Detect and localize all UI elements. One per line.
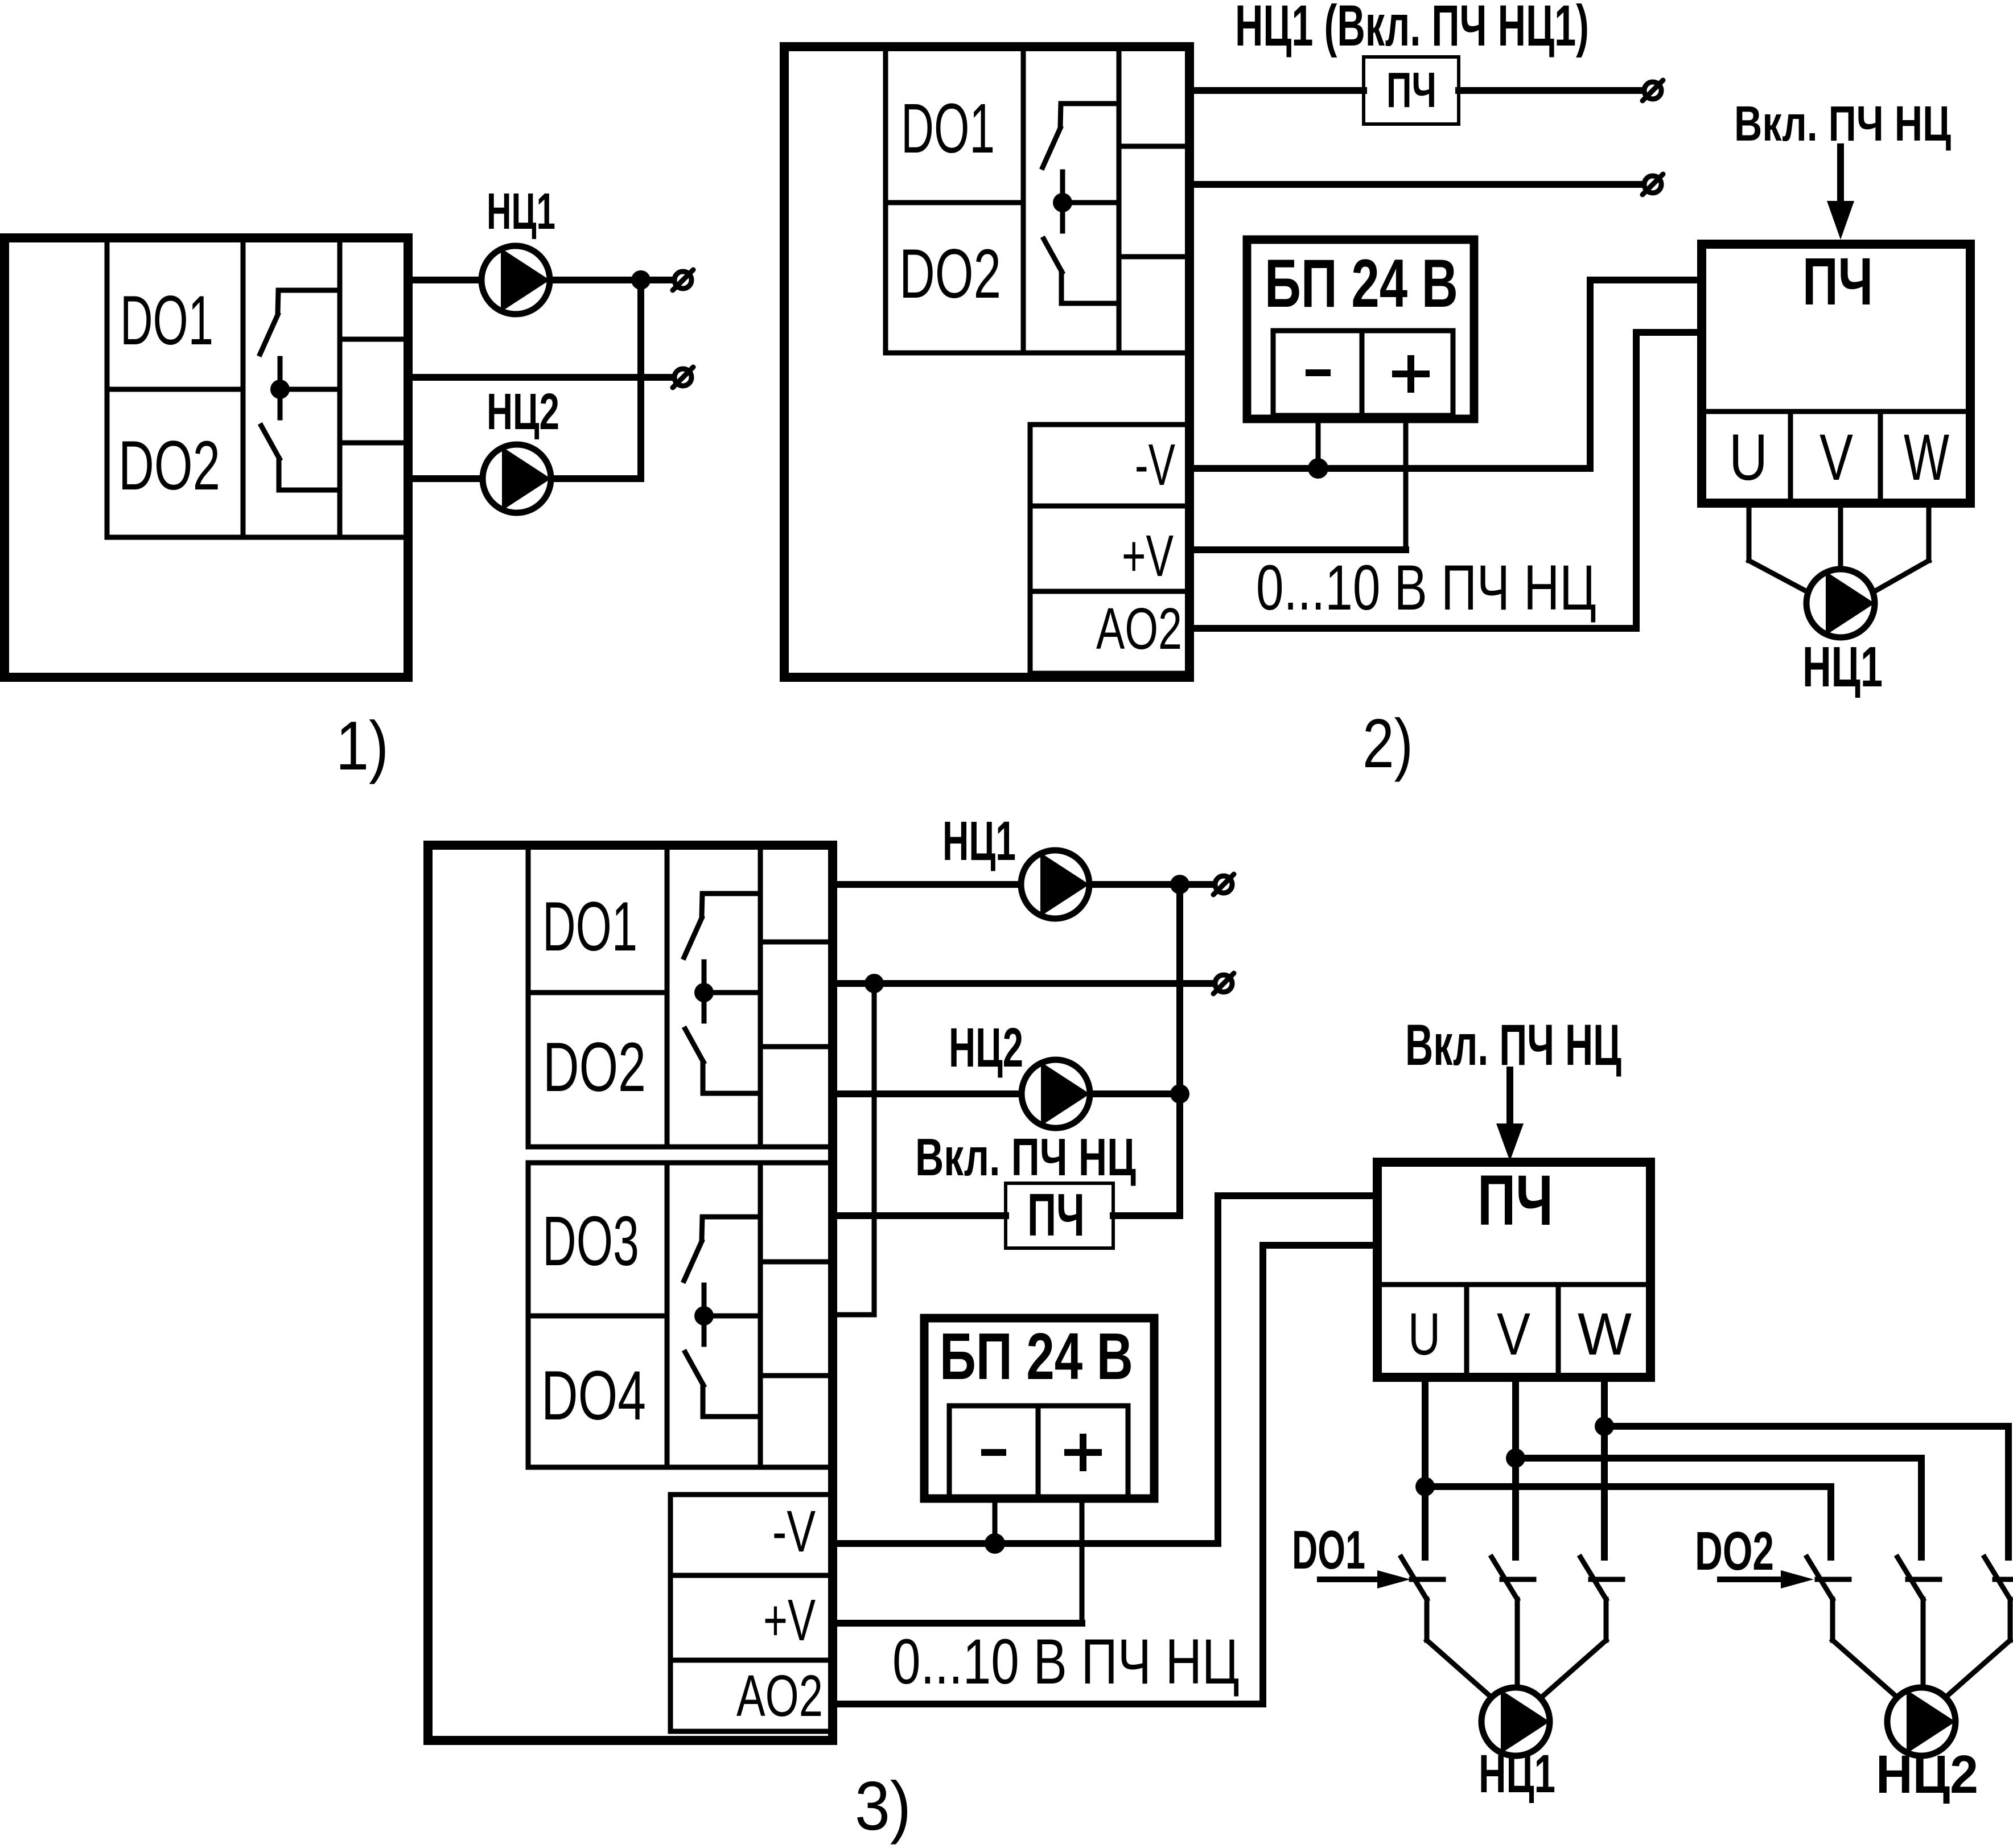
junction node -V / БП minus (diagram 3): [985, 1533, 1005, 1554]
wire DO2 output to pump НЦ2 (diagram 3): [833, 1090, 1021, 1097]
БП output terminal cells (diagram 3): [949, 1406, 1128, 1499]
pump НЦ1 (diagram 2): [1806, 569, 1875, 637]
wire DO4 output to ПЧ run-contact (diagram 3): [833, 1212, 1006, 1219]
svg-text:ПЧ: ПЧ: [1802, 244, 1873, 319]
U V W terminal row (diagram 2): [1702, 411, 1970, 503]
inner partition lines group DO1/DO2 (diagram 3): [528, 845, 833, 1147]
terminal N (diagram 3) (screw symbol): [1213, 973, 1234, 994]
wire common to terminal N (diagram 2): [1189, 181, 1641, 188]
pump НЦ1 (diagram 3 top): [1021, 850, 1089, 919]
svg-text:+V: +V: [1122, 522, 1174, 588]
wire БП minus to -V node: [1316, 419, 1321, 468]
inner partition lines group DO3/DO4 (diagram 3): [528, 1163, 833, 1467]
arrow DO1: [1320, 1570, 1410, 1588]
wire DO2 output to pump НЦ2: [408, 475, 482, 482]
terminal N (diagram 1) (screw symbol): [673, 367, 693, 388]
svg-text:DO2: DO2: [899, 234, 1001, 312]
contactor pole DO1-V: [1492, 1557, 1534, 1686]
svg-text:DO2: DO2: [1695, 1520, 1774, 1582]
arrow DO2: [1720, 1570, 1814, 1588]
svg-text:DO1: DO1: [120, 281, 213, 359]
wire common N (diagram 3): [833, 980, 1212, 987]
junction node N to DO3 common: [865, 974, 884, 993]
svg-text:+V: +V: [763, 1587, 816, 1653]
U V W terminal row (diagram 3): [1377, 1285, 1650, 1377]
wire AO2 to ПЧ analog input (diagram 3): [833, 1245, 1377, 1704]
lower terminal block -V/+V/AO2 (diagram 2): [1030, 425, 1189, 673]
power supply БП 24 В (diagram 2): [1247, 240, 1474, 419]
junction node U: [1415, 1477, 1435, 1496]
svg-text:НЦ1 (Вкл. ПЧ НЦ1): НЦ1 (Вкл. ПЧ НЦ1): [1235, 0, 1589, 58]
contactor pole DO2-U: [1807, 1557, 1896, 1696]
wire БП plus down to +V (diagram 3): [1080, 1499, 1085, 1623]
svg-text:НЦ1: НЦ1: [1479, 1744, 1555, 1804]
wire V to pump: [1838, 503, 1843, 567]
svg-text:НЦ2: НЦ2: [1876, 1744, 1978, 1805]
contactor pole DO1-W: [1543, 1557, 1623, 1696]
relay changeover contact K1 (diagram 3): [684, 894, 760, 1093]
wire N drop to DO3 common: [833, 983, 874, 1315]
controller box (diagram 2): [784, 47, 1189, 677]
controller box (diagram 3): [428, 845, 833, 1740]
svg-text:DO2: DO2: [543, 1027, 646, 1106]
svg-text:ПЧ: ПЧ: [1386, 63, 1436, 118]
frequency converter ПЧ (diagram 2): [1702, 244, 1970, 503]
БП output terminal cells: [1273, 331, 1453, 415]
wire +V to БП plus: [1189, 546, 1406, 553]
svg-text:БП 24 В: БП 24 В: [940, 1319, 1133, 1393]
svg-text:3): 3): [855, 1767, 911, 1845]
wire БП minus to -V node (diagram 3): [993, 1499, 998, 1544]
pump НЦ2 (diagram 1): [483, 444, 551, 513]
relay changeover contact K2 (diagram 3): [684, 1217, 760, 1417]
label minus (diagram 3): [985, 1449, 1003, 1456]
arrow Вкл. ПЧ НЦ into ПЧ (diagram 3): [1496, 1070, 1524, 1161]
wire riser НЦ2 to L junction: [637, 280, 644, 479]
svg-text:DO4: DO4: [541, 1356, 646, 1434]
wire DO1 output to ПЧ run-contact: [1189, 87, 1364, 94]
svg-text:AO2: AO2: [1096, 596, 1182, 662]
junction node -V / БП minus: [1308, 458, 1328, 479]
wire U to pump: [1749, 503, 1808, 592]
contactor pole DO2-W: [1947, 1557, 2013, 1696]
wire DO1 output to pump НЦ1 (diagram 3): [833, 881, 1020, 888]
wire AO2 to ПЧ analog input: [1189, 332, 1702, 628]
svg-text:DO3: DO3: [542, 1203, 639, 1281]
svg-text:2): 2): [1362, 705, 1413, 783]
svg-text:-V: -V: [772, 1499, 816, 1565]
wire W to pump: [1874, 503, 1929, 592]
wire riser to L junction and ПЧ contact: [1176, 884, 1183, 1216]
svg-text:Вкл. ПЧ НЦ: Вкл. ПЧ НЦ: [1734, 96, 1951, 151]
wire +V to БП plus (diagram 3): [833, 1620, 1082, 1627]
relay changeover contact K1 (diagram 2): [1043, 104, 1119, 303]
svg-text:ПЧ: ПЧ: [1027, 1182, 1085, 1249]
svg-text:DO1: DO1: [1292, 1520, 1365, 1581]
svg-text:-V: -V: [1135, 432, 1175, 497]
junction node on L wire: [631, 270, 651, 290]
pump НЦ1 (diagram 3 bottom): [1481, 1688, 1550, 1756]
terminal L (diagram 1 top) (screw symbol): [673, 270, 693, 290]
svg-text:Вкл. ПЧ НЦ: Вкл. ПЧ НЦ: [915, 1128, 1136, 1187]
box ПЧ run relay coil (diagram 3): [1006, 1183, 1113, 1248]
arrow Вкл. ПЧ НЦ into ПЧ: [1827, 147, 1854, 240]
box ПЧ run relay coil (diagram 2): [1364, 57, 1459, 124]
pump НЦ2 (diagram 3 top): [1022, 1060, 1090, 1128]
junction node V: [1506, 1448, 1525, 1468]
wire V output (diagram 3): [1516, 1377, 1921, 1557]
wire W output (diagram 3): [1604, 1377, 2008, 1557]
svg-text:V: V: [1497, 1300, 1530, 1368]
wire -V to ПЧ supply: [1189, 280, 1702, 468]
wire pump НЦ1 to terminal (diagram 3): [1090, 881, 1212, 888]
label plus: [1395, 359, 1426, 389]
wire DO1 output to pump НЦ1: [408, 277, 481, 283]
svg-text:DO2: DO2: [118, 426, 220, 504]
terminal L (diagram 3) (screw symbol): [1213, 874, 1234, 895]
wire -V to ПЧ supply (diagram 3): [833, 1196, 1377, 1544]
wire БП plus down to +V: [1403, 419, 1409, 550]
frequency converter ПЧ (diagram 3): [1377, 1162, 1650, 1377]
contactor pole DO1-U: [1401, 1557, 1490, 1696]
terminal L (diagram 2) (screw symbol): [1642, 80, 1663, 101]
svg-text:DO1: DO1: [901, 90, 995, 168]
wire U output (diagram 3): [1425, 1377, 1831, 1557]
contactor pole DO2-V: [1897, 1557, 1940, 1686]
junction node W: [1595, 1417, 1614, 1436]
svg-text:НЦ1: НЦ1: [942, 811, 1016, 872]
svg-text:1): 1): [336, 707, 389, 784]
svg-text:НЦ2: НЦ2: [949, 1016, 1023, 1079]
junction node НЦ2 riser: [1170, 1084, 1189, 1104]
svg-text:ПЧ: ПЧ: [1477, 1161, 1553, 1240]
svg-text:БП 24 В: БП 24 В: [1265, 245, 1458, 322]
wire ПЧ contact to terminal L: [1459, 87, 1641, 94]
junction node L (diagram 3): [1170, 875, 1189, 894]
wire common to terminal N: [408, 374, 672, 381]
label plus (diagram 3): [1068, 1437, 1098, 1468]
wire pump НЦ1 to terminal: [550, 277, 672, 283]
svg-text:V: V: [1819, 421, 1853, 494]
terminal N (diagram 2) (screw symbol): [1642, 174, 1663, 195]
svg-text:0...10 В ПЧ НЦ: 0...10 В ПЧ НЦ: [1256, 553, 1596, 624]
lower terminal block -V/+V/AO2 (diagram 3): [670, 1495, 833, 1731]
wire pump НЦ2 to junction riser: [551, 475, 641, 482]
label minus: [1309, 369, 1327, 376]
svg-text:НЦ1: НЦ1: [487, 183, 555, 240]
power supply БП 24 В (diagram 3): [924, 1318, 1154, 1499]
svg-text:DO1: DO1: [542, 888, 637, 966]
svg-text:W: W: [1578, 1300, 1632, 1367]
svg-text:AO2: AO2: [736, 1664, 823, 1729]
wire pump НЦ2 to riser (diagram 3): [1090, 1090, 1180, 1097]
svg-text:НЦ2: НЦ2: [487, 382, 559, 441]
svg-text:W: W: [1904, 422, 1949, 495]
inner partition lines (diagram 2): [886, 47, 1189, 353]
svg-text:0...10 В ПЧ НЦ: 0...10 В ПЧ НЦ: [892, 1626, 1240, 1697]
pump НЦ2 (diagram 3 bottom): [1887, 1688, 1956, 1756]
inner partition lines (diagram 1): [107, 238, 408, 537]
pump НЦ1 (diagram 1): [481, 246, 550, 314]
controller box (diagram 1): [5, 238, 408, 677]
svg-text:U: U: [1729, 421, 1768, 494]
wire ПЧ contact to riser: [1113, 1212, 1180, 1219]
svg-text:U: U: [1408, 1300, 1440, 1368]
relay changeover contact K1 (DO1/DO2): [260, 290, 340, 490]
svg-text:НЦ1: НЦ1: [1802, 636, 1883, 699]
